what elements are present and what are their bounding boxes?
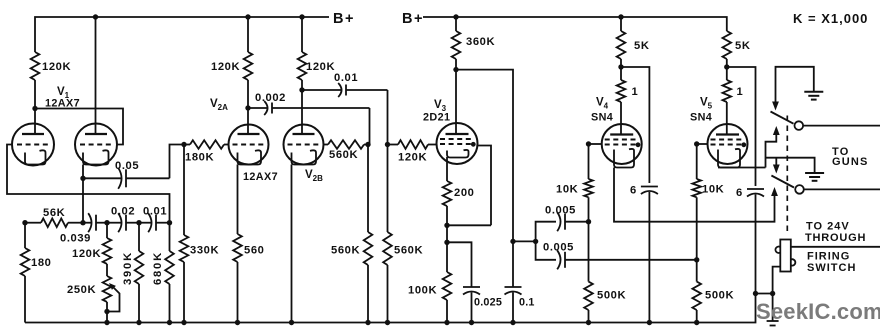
triode V1a bbox=[12, 124, 54, 166]
node 0.01/120K junction bbox=[385, 142, 390, 147]
capacitor 6 (V4) bbox=[630, 185, 658, 323]
wire V2B cathode to ground bbox=[291, 165, 293, 323]
node B+ (left rail) label bbox=[333, 11, 355, 27]
ground (contact 2) bbox=[805, 173, 824, 181]
tube V2 12AX7 label bbox=[243, 169, 323, 183]
svg-text:B+: B+ bbox=[402, 11, 424, 27]
svg-text:0.01: 0.01 bbox=[143, 206, 167, 218]
mechanical linkage (dashed) bbox=[786, 116, 788, 232]
svg-text:500K: 500K bbox=[705, 290, 734, 302]
capacitor 0.05 coupling bbox=[83, 145, 184, 189]
resistor 120K V1a plate load bbox=[31, 52, 71, 109]
resistor 56K bbox=[41, 207, 68, 227]
potentiometer 250K bbox=[67, 264, 120, 323]
svg-text:SN4: SN4 bbox=[591, 112, 613, 124]
note K = X1,000 bbox=[793, 11, 868, 26]
node 0.025 tap junction bbox=[444, 240, 449, 245]
svg-text:SWITCH: SWITCH bbox=[807, 262, 856, 274]
resistor 10K (V5) bbox=[692, 144, 724, 260]
resistor 330K bbox=[180, 145, 219, 323]
svg-text:FIRING: FIRING bbox=[807, 251, 850, 263]
svg-text:200: 200 bbox=[454, 187, 474, 199]
wire contact 2 ground line bbox=[766, 158, 815, 173]
svg-text:B+: B+ bbox=[333, 11, 355, 27]
wire cathode bias bus y=222.7 bbox=[25, 222, 41, 224]
switch blade contact 2 bbox=[771, 176, 794, 188]
wire V5 plate node to 6uF bbox=[727, 67, 756, 186]
resistor 1 (V5) bbox=[723, 67, 744, 135]
resistor 560K V2B grid bbox=[324, 140, 369, 161]
svg-text:100K: 100K bbox=[408, 285, 437, 297]
svg-text:120K: 120K bbox=[306, 61, 335, 73]
ground (system earth) bbox=[767, 294, 779, 326]
resistor 180 bbox=[21, 223, 52, 323]
node V2A plate junction bbox=[245, 105, 250, 110]
wire ground bus bbox=[25, 294, 756, 323]
capacitor 0.002 coupling bbox=[248, 92, 370, 145]
node V5 plate-node junction bbox=[724, 64, 729, 69]
contact 2 terminal circle bbox=[795, 185, 804, 194]
switch blade contact 1 bbox=[771, 112, 794, 124]
svg-text:1: 1 bbox=[737, 86, 744, 98]
watermark SeekIC.com bbox=[756, 299, 880, 324]
capacitor 0.01 (bias bus) bbox=[139, 206, 170, 233]
svg-text:560: 560 bbox=[244, 245, 264, 257]
wire V3 shield grid tie bbox=[477, 146, 491, 226]
node V5 grid network junction bbox=[694, 257, 699, 262]
svg-text:0.005: 0.005 bbox=[545, 205, 576, 217]
tube V2A label bbox=[210, 98, 228, 112]
wire V1a plate to V1b grid bbox=[35, 109, 123, 145]
armature arrow (contact 1 top) bbox=[772, 102, 779, 111]
resistor 500K (V4) bbox=[584, 222, 626, 323]
resistor 560K (V2B grid leak) bbox=[331, 145, 372, 323]
svg-text:0.05: 0.05 bbox=[115, 160, 139, 172]
wire V3 plate lead bbox=[455, 70, 457, 134]
contact 1 terminal circle bbox=[795, 121, 804, 130]
node V1a plate junction bbox=[32, 106, 37, 135]
node V3 plate junction bbox=[453, 67, 458, 72]
resistor 5K (V5) bbox=[723, 31, 751, 67]
svg-text:360K: 360K bbox=[466, 36, 495, 48]
wire ground-bus link bbox=[756, 293, 773, 295]
node V4 grid junction bbox=[586, 141, 591, 146]
node coupling junction bbox=[533, 239, 538, 244]
svg-text:120K: 120K bbox=[211, 61, 240, 73]
svg-text:0.1: 0.1 bbox=[519, 297, 535, 309]
capacitor 6 (V5) bbox=[736, 187, 764, 294]
wire V4 cathode to relay contact 2 bbox=[614, 168, 775, 222]
resistor 560 V2A cathode bbox=[233, 165, 264, 323]
svg-text:6: 6 bbox=[630, 185, 637, 197]
capacitor 0.1 bbox=[505, 239, 535, 323]
svg-text:560K: 560K bbox=[329, 149, 358, 161]
armature arrow (contact 2 top) bbox=[773, 165, 780, 174]
svg-text:K = X1,000: K = X1,000 bbox=[793, 11, 868, 26]
wire relay coil to 24V bbox=[791, 246, 880, 248]
svg-text:0.039: 0.039 bbox=[60, 233, 91, 245]
tube V4 label bbox=[591, 97, 613, 124]
node V2B plate junction bbox=[299, 87, 304, 92]
svg-text:56K: 56K bbox=[43, 207, 65, 219]
node V4 grid network junction bbox=[586, 219, 591, 224]
resistor 1 (V4) bbox=[617, 67, 639, 135]
wire gun output 1 bbox=[803, 125, 880, 127]
label TO 24V THROUGH bbox=[805, 221, 866, 245]
resistor 120K V3 grid input bbox=[388, 140, 438, 163]
node V1b cathode / 0.05 tap bbox=[80, 176, 85, 181]
wire V4 grid stub bbox=[589, 143, 603, 145]
svg-text:SN4: SN4 bbox=[690, 112, 712, 124]
resistor 10K (V4) bbox=[556, 144, 593, 222]
tube V1 label bbox=[45, 86, 80, 110]
svg-text:10K: 10K bbox=[702, 184, 724, 196]
wire V5 cathode to relay contacts bbox=[718, 135, 776, 168]
resistor 5K (V4) bbox=[617, 17, 650, 67]
capacitor 0.02 bbox=[107, 206, 139, 233]
junction dots on bias bus bbox=[22, 220, 172, 225]
wire contact 1 ground line bbox=[776, 67, 814, 104]
svg-text:12AX7: 12AX7 bbox=[45, 98, 80, 110]
wire relay coil to ground bbox=[773, 267, 781, 294]
svg-text:560K: 560K bbox=[394, 245, 423, 257]
thyratron V5 bbox=[708, 124, 748, 168]
svg-text:0.002: 0.002 bbox=[255, 92, 286, 104]
wire B+ rail 2 bbox=[423, 17, 727, 31]
svg-text:6: 6 bbox=[736, 187, 743, 199]
resistor 390K bbox=[122, 223, 143, 323]
resistor 360K bbox=[452, 17, 495, 70]
node B+ (right rail) label bbox=[402, 11, 424, 27]
svg-text:5K: 5K bbox=[634, 40, 650, 52]
wire V1a grid line bbox=[7, 145, 170, 223]
triode V1b bbox=[75, 124, 117, 166]
svg-text:1: 1 bbox=[632, 86, 639, 98]
label FIRING SWITCH bbox=[807, 251, 856, 275]
svg-text:330K: 330K bbox=[190, 245, 219, 257]
capacitor 0.039 bbox=[60, 213, 107, 244]
resistor 560K (V3 grid leak) bbox=[383, 145, 423, 323]
node 0.002/560K junction bbox=[365, 142, 370, 147]
resistor 100K bbox=[408, 225, 451, 322]
wire V1b cathode down bbox=[82, 165, 84, 223]
node V5 grid junction bbox=[694, 141, 699, 146]
svg-text:250K: 250K bbox=[67, 284, 96, 296]
wire gun output 2 bbox=[804, 188, 880, 190]
junction dots ground bus bbox=[104, 291, 775, 325]
resistor 120K V2B plate load bbox=[298, 17, 335, 135]
svg-text:180K: 180K bbox=[185, 152, 214, 164]
svg-text:0.02: 0.02 bbox=[111, 206, 135, 218]
junction dots on B+ rail 2 bbox=[453, 14, 623, 19]
svg-text:180: 180 bbox=[31, 257, 51, 269]
node V4 plate-node junction bbox=[618, 64, 623, 69]
capacitor 0.01 coupling bbox=[302, 72, 388, 145]
resistor 500K (V5) bbox=[692, 260, 734, 323]
resistor 200 V3 cathode bbox=[443, 157, 475, 225]
tube V5 label bbox=[690, 97, 713, 124]
wire V3 plate node to coupling bus bbox=[456, 70, 513, 242]
wire V1b plate to B+ bbox=[95, 17, 97, 135]
svg-text:SeekIC.com: SeekIC.com bbox=[756, 299, 880, 324]
svg-text:500K: 500K bbox=[597, 290, 626, 302]
svg-text:120K: 120K bbox=[42, 61, 71, 73]
tube V3 label bbox=[423, 99, 450, 124]
ground (contact 1) bbox=[804, 92, 823, 100]
armature arrow (contact 1, upper) bbox=[773, 126, 780, 135]
wire coupling bus corner bbox=[513, 240, 536, 242]
node V2A grid input junction bbox=[181, 142, 186, 147]
wire 56K to V1b cathode bbox=[68, 222, 83, 224]
svg-text:680K: 680K bbox=[152, 251, 164, 285]
svg-text:0.005: 0.005 bbox=[543, 242, 574, 254]
wire B+ rail 1 bbox=[35, 17, 329, 52]
armature arrow (contact 2, lower) bbox=[771, 187, 778, 196]
svg-text:120K: 120K bbox=[72, 248, 101, 260]
label TO GUNS bbox=[832, 146, 869, 168]
svg-text:THROUGH: THROUGH bbox=[805, 232, 866, 244]
svg-text:0.01: 0.01 bbox=[334, 72, 358, 84]
wire cathode node to shield grid bbox=[447, 224, 491, 226]
svg-text:5K: 5K bbox=[735, 40, 751, 52]
svg-text:GUNS: GUNS bbox=[832, 156, 869, 168]
resistor 680K bbox=[152, 223, 174, 323]
resistor 180K bbox=[184, 140, 228, 163]
svg-text:TO 24V: TO 24V bbox=[806, 221, 850, 233]
junction dots on B+ rail 1 bbox=[93, 14, 305, 19]
node V3 cathode network junction bbox=[444, 223, 449, 228]
svg-text:120K: 120K bbox=[398, 152, 427, 164]
capacitor 0.005 (to V5 grid) bbox=[536, 241, 697, 269]
capacitor 0.005 (to V4 grid) bbox=[536, 205, 589, 242]
wire V4 plate node to 6uF bbox=[621, 67, 649, 183]
resistor 120K (bias chain) bbox=[72, 223, 111, 264]
thyratron V4 bbox=[602, 124, 642, 168]
resistor 120K V2A plate load bbox=[211, 17, 252, 135]
triode V2A bbox=[229, 125, 269, 165]
svg-text:2D21: 2D21 bbox=[423, 112, 450, 124]
svg-text:10K: 10K bbox=[556, 184, 578, 196]
svg-text:12AX7: 12AX7 bbox=[243, 171, 278, 183]
svg-text:390K: 390K bbox=[122, 251, 134, 285]
capacitor 0.025 bbox=[447, 242, 502, 322]
svg-text:560K: 560K bbox=[331, 245, 360, 257]
svg-text:0.025: 0.025 bbox=[474, 297, 502, 309]
thyratron V3 bbox=[437, 123, 478, 164]
wire contact 2 armature drop bbox=[775, 158, 777, 166]
wire V5 grid stub bbox=[697, 143, 708, 145]
relay coil K1 bbox=[775, 240, 795, 272]
triode V2B bbox=[284, 125, 324, 165]
